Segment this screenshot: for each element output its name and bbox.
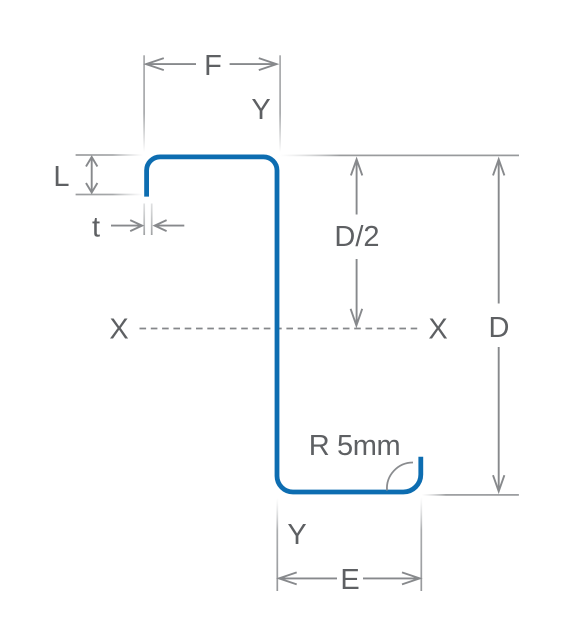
- svg-text:X: X: [428, 314, 447, 346]
- t thickness extension ticks: [143, 204, 145, 236]
- svg-text:E: E: [340, 564, 359, 596]
- svg-text:F: F: [204, 50, 222, 82]
- t dimension arrows: [111, 220, 184, 231]
- L dimension extension lines: [76, 154, 143, 156]
- svg-text:Y: Y: [287, 519, 306, 551]
- svg-text:D: D: [489, 312, 510, 344]
- radius leader arc: [387, 462, 413, 490]
- D dimension arrows: [493, 159, 504, 491]
- E dimension arrows: [279, 572, 420, 584]
- svg-text:R 5mm: R 5mm: [309, 430, 400, 462]
- svg-text:Y: Y: [251, 94, 270, 126]
- F dimension arrows and extension lines: [143, 55, 281, 152]
- neutral axis X-X dashed centreline: [140, 328, 418, 330]
- bottom boundary line right: [422, 494, 519, 496]
- svg-text:t: t: [92, 212, 100, 244]
- top boundary line right: [280, 155, 519, 157]
- E dimension extension lines: [276, 498, 278, 591]
- D/2 dimension arrows: [351, 159, 363, 325]
- svg-text:X: X: [109, 314, 128, 346]
- svg-text:L: L: [53, 161, 69, 193]
- L dimension double arrow: [86, 157, 97, 193]
- svg-text:D/2: D/2: [334, 221, 379, 253]
- Z-section steel profile outline: [147, 157, 421, 492]
